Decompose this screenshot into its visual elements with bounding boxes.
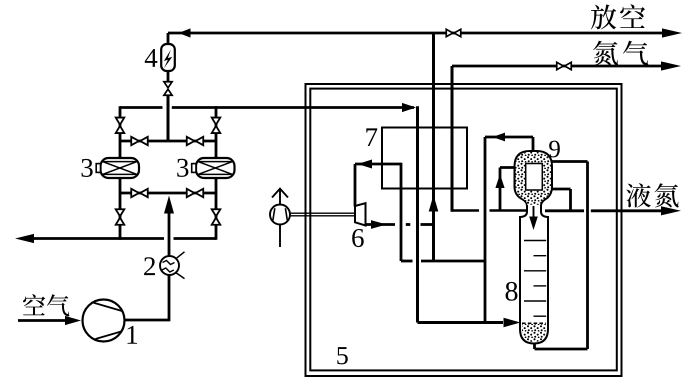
cooler 2 <box>160 252 185 279</box>
adsorber left branch pipe <box>119 106 122 240</box>
air stream vertical through exchanger <box>416 106 419 322</box>
wire: compressor discharge <box>125 319 170 322</box>
liquid nitrogen product line to 液氮 <box>545 206 681 215</box>
valve on vent line <box>446 29 461 36</box>
turbine brake blower <box>270 205 290 225</box>
label 7 <box>366 128 377 146</box>
wire: cooler to adsorber feed <box>168 212 171 256</box>
wire: valve to air manifold <box>167 95 170 141</box>
air manifold / feed line into cold box <box>120 103 416 112</box>
electric heater 4 <box>161 44 175 71</box>
valve on nitrogen line <box>557 62 572 69</box>
condenser overhead line to waste <box>485 133 533 323</box>
label 3 left <box>82 159 93 177</box>
lower crossover manifold <box>120 192 216 195</box>
label 8 <box>506 282 518 301</box>
liquid level dashed line <box>522 322 546 324</box>
wire: brake blower drain stub <box>279 225 281 248</box>
expansion turbine 6 <box>355 203 366 225</box>
valve upper right branch <box>212 118 221 134</box>
valve lower left branch <box>116 209 125 225</box>
column trays <box>524 241 546 317</box>
valve upper left branch <box>116 118 125 134</box>
valve lower manifold right <box>187 189 204 197</box>
label 液氮 <box>626 183 678 207</box>
adsorber right branch pipe <box>215 106 218 240</box>
condenser liquid drain to product line <box>551 189 571 211</box>
valve under heater <box>164 82 172 96</box>
heat exchanger 7 <box>382 128 467 189</box>
nitrogen takeoff from column top <box>452 209 526 212</box>
cold box 5 outer wall <box>306 84 622 376</box>
vent header line to 放空 <box>168 28 682 37</box>
arrow: compressed air up into manifold <box>164 196 174 214</box>
nitrogen gas line to 氮气 <box>452 61 681 70</box>
adsorber 3 right <box>192 158 235 178</box>
air compressor 1 <box>83 300 125 342</box>
turbine inlet line with arrow <box>355 160 401 207</box>
cold box 5 inner wall <box>310 89 617 371</box>
condenser shell feed line with arrow <box>495 168 519 211</box>
air feed line to column with arrow <box>418 318 521 328</box>
brake blower exhaust arrow (open chevron) <box>272 189 288 205</box>
label 4 <box>145 49 158 67</box>
waste header line <box>401 260 485 263</box>
turbine shaft double line <box>291 213 356 216</box>
nitrogen stream vertical through exchanger <box>451 66 454 212</box>
label 9 <box>549 141 560 158</box>
valve upper manifold left <box>131 137 148 145</box>
waste return vertical <box>400 163 403 261</box>
adsorber 3 left <box>96 158 139 178</box>
label 放空 <box>591 4 645 29</box>
label 2 <box>144 257 155 275</box>
upper crossover manifold <box>120 140 216 143</box>
rich liquid loop: dome to column bottom <box>535 162 588 350</box>
reflux arrow down into column <box>529 206 538 230</box>
vent stream vertical through exchanger <box>432 33 435 261</box>
regeneration waste line to left vent <box>15 234 216 243</box>
column bottom liquid stipple <box>522 324 546 342</box>
label 1 <box>128 326 138 344</box>
valve upper manifold right <box>187 137 204 145</box>
condenser 9 and column 8 body <box>515 151 553 344</box>
label 5 <box>337 347 347 364</box>
label 3 right <box>177 159 188 177</box>
condenser tube block <box>526 164 543 191</box>
turbine outlet dash-dot line with arrow <box>366 220 434 229</box>
condenser packing stipple <box>516 152 552 205</box>
label 6 <box>352 229 364 247</box>
label 空气 <box>23 294 69 316</box>
valve lower manifold left <box>131 189 148 197</box>
wire: heater to valve <box>167 71 170 82</box>
arrow: vent stream upward <box>429 195 439 212</box>
label 氮气 <box>593 41 648 66</box>
air inlet line <box>18 316 81 325</box>
valve lower right branch <box>212 209 221 225</box>
wire: vent line drop to heater <box>167 33 170 44</box>
